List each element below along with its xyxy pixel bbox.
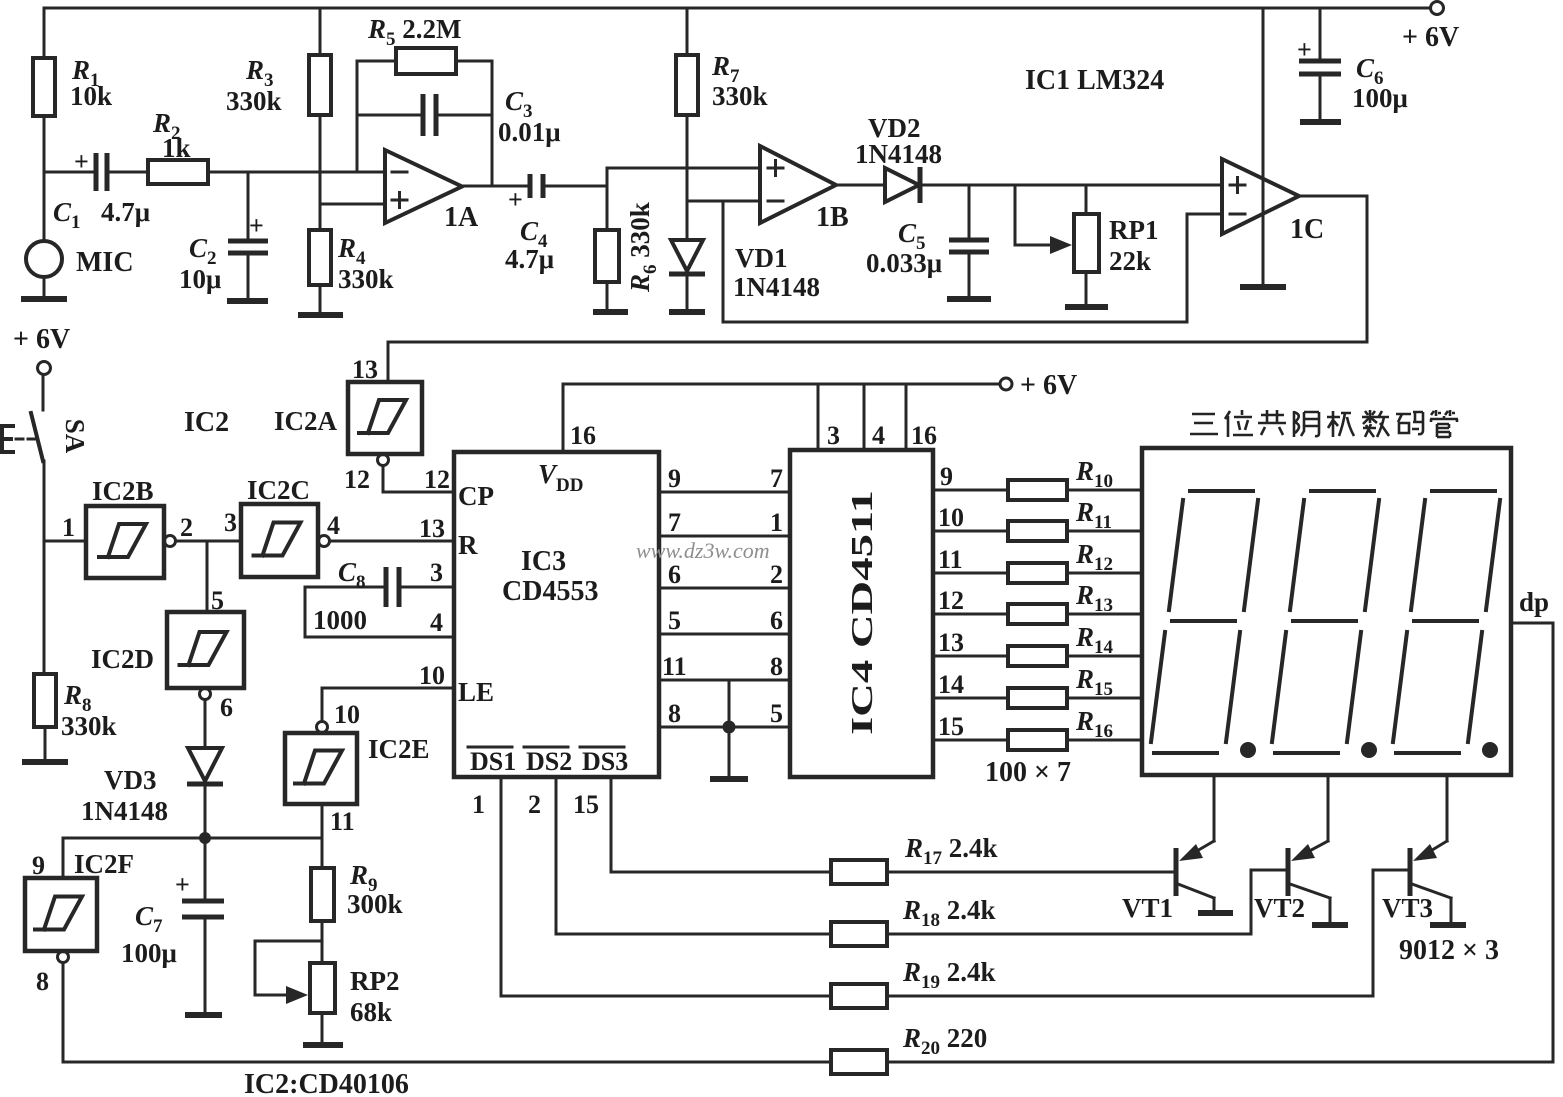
- svg-text:1C: 1C: [1290, 214, 1324, 245]
- ground: [1300, 119, 1341, 125]
- svg-text:6: 6: [668, 560, 681, 589]
- svg-text:3: 3: [224, 508, 237, 537]
- svg-text:13: 13: [419, 514, 445, 543]
- svg-text:RP1: RP1: [1109, 215, 1159, 245]
- svg-text:+: +: [74, 147, 89, 176]
- resistor R14: [933, 655, 1142, 658]
- resistor R7 330k: [686, 8, 689, 240]
- svg-text:330k: 330k: [712, 81, 768, 111]
- svg-text:SA: SA: [60, 419, 90, 454]
- wire IC2F out to R20 rail: [63, 963, 831, 1062]
- schmitt inverter IC2E: [317, 722, 328, 733]
- wire top +6V rail: [44, 7, 1430, 10]
- svg-text:330k: 330k: [338, 264, 394, 294]
- svg-text:4: 4: [872, 421, 885, 450]
- ground: [303, 1042, 343, 1048]
- svg-text:15: 15: [938, 712, 964, 741]
- capacitor C1 4.7u: [44, 171, 148, 174]
- digit 2: [1272, 491, 1379, 753]
- wire IC3-IC4 bus line 7-1: [659, 535, 790, 538]
- svg-text:1B: 1B: [816, 202, 849, 233]
- diode VD3 1N4148: [204, 700, 207, 748]
- svg-text:330k: 330k: [61, 711, 117, 741]
- capacitor C4 4.7u: [462, 185, 607, 188]
- svg-text:7: 7: [668, 508, 681, 537]
- wire IC4 pin4 riser: [863, 384, 866, 450]
- svg-text:dp: dp: [1519, 587, 1549, 617]
- resistor R19 2.4k: [831, 984, 887, 1008]
- svg-text:11: 11: [330, 807, 355, 836]
- ground: [1312, 922, 1348, 928]
- char san: [1190, 414, 1218, 434]
- svg-text:DS1: DS1: [470, 747, 516, 776]
- op-amp U1A: [385, 150, 462, 223]
- svg-text:IC2A: IC2A: [274, 406, 338, 436]
- capacitor C3 0.01u feedback: [357, 114, 492, 117]
- resistor R2 1k: [148, 160, 208, 184]
- svg-text:0.033μ: 0.033μ: [866, 248, 942, 278]
- ground: [710, 776, 748, 782]
- svg-text:10: 10: [938, 503, 964, 532]
- digit 3: [1393, 491, 1500, 753]
- ground: [593, 309, 628, 315]
- svg-text:1N4148: 1N4148: [733, 272, 820, 302]
- resistor R9 300k: [311, 868, 334, 921]
- capacitor C5 0.033u: [968, 185, 971, 299]
- svg-text:IC1 LM324: IC1 LM324: [1025, 65, 1164, 96]
- wire IC2E out down: [321, 804, 324, 868]
- svg-text:+: +: [249, 211, 264, 240]
- transistor VT3: [1446, 775, 1449, 841]
- wire IC3-IC4 bus line 9-7: [659, 491, 790, 494]
- wire IC3 DS1 pin1 to R19: [501, 777, 831, 996]
- diode VD1 1N4148: [671, 240, 703, 271]
- svg-text:12: 12: [424, 465, 450, 494]
- op-amp U1C: [1262, 8, 1265, 287]
- svg-text:4.7μ: 4.7μ: [505, 244, 554, 274]
- svg-text:www.dz3w.com: www.dz3w.com: [636, 538, 770, 563]
- resistor R6 330k: [606, 168, 609, 312]
- svg-text:IC2B: IC2B: [92, 476, 154, 506]
- svg-text:100μ: 100μ: [1352, 83, 1408, 113]
- svg-text:IC2E: IC2E: [368, 734, 430, 764]
- svg-text:16: 16: [570, 421, 596, 450]
- wire dp: [1511, 623, 1553, 1062]
- svg-text:8: 8: [668, 699, 681, 728]
- svg-text:CD4553: CD4553: [502, 576, 598, 607]
- svg-text:11: 11: [662, 652, 687, 681]
- resistor R13: [933, 613, 1142, 616]
- wire 1A noninverting input: [320, 203, 385, 206]
- resistor R20 220: [831, 1050, 887, 1074]
- svg-text:10k: 10k: [70, 81, 112, 111]
- IC IC4 CD4511: [790, 450, 933, 777]
- wire IC2E in from LE: [322, 688, 454, 721]
- resistor R16: [933, 739, 1142, 742]
- svg-text:VD3: VD3: [104, 765, 157, 795]
- svg-text:9: 9: [32, 851, 45, 880]
- wire 1B inverting line: [687, 201, 760, 322]
- svg-text:3: 3: [430, 558, 443, 587]
- resistor R11: [933, 530, 1142, 533]
- char yin: [1294, 411, 1319, 437]
- svg-text:1: 1: [62, 513, 75, 542]
- resistor R3 330k: [319, 8, 322, 230]
- resistor R18 2.4k: [831, 922, 887, 946]
- wire 1C inverting feedback: [723, 214, 1222, 322]
- svg-text:5: 5: [668, 606, 681, 635]
- svg-text:4.7μ: 4.7μ: [101, 197, 150, 227]
- svg-text:4: 4: [327, 511, 340, 540]
- digit 1: [1151, 491, 1258, 753]
- svg-text:100 × 7: 100 × 7: [985, 757, 1071, 788]
- svg-text:R: R: [458, 530, 478, 560]
- svg-text:IC2D: IC2D: [91, 644, 154, 674]
- switch SA: [42, 375, 45, 410]
- svg-text:+: +: [175, 870, 190, 899]
- svg-text:+: +: [508, 185, 523, 214]
- svg-text:IC4 CD4511: IC4 CD4511: [844, 490, 879, 735]
- capacitor C7 100u: [204, 838, 207, 1015]
- svg-text:1: 1: [770, 508, 783, 537]
- resistor R1: [43, 8, 46, 172]
- svg-text:9012 × 3: 9012 × 3: [1399, 935, 1499, 966]
- ground: [1240, 284, 1286, 290]
- svg-text:RP2: RP2: [350, 966, 400, 996]
- svg-text:IC2: IC2: [184, 407, 229, 438]
- svg-text:IC2:CD40106: IC2:CD40106: [244, 1069, 409, 1097]
- ground: [22, 759, 68, 765]
- svg-text:1N4148: 1N4148: [81, 796, 168, 826]
- svg-text:6: 6: [220, 693, 233, 722]
- svg-text:2: 2: [180, 513, 193, 542]
- svg-text:12: 12: [344, 465, 370, 494]
- schmitt inverter IC2D: [206, 541, 209, 612]
- display 3-digit common-cathode: [1190, 410, 1458, 437]
- svg-text:2: 2: [528, 790, 541, 819]
- wire IC2A out to CP: [383, 466, 454, 492]
- node +6V mid terminal: [1000, 378, 1012, 390]
- ground: [185, 1012, 222, 1018]
- transistor VT1: [1213, 775, 1216, 841]
- char ji: [1327, 411, 1354, 437]
- capacitor C6 100u: [1319, 8, 1322, 122]
- svg-text:VD1: VD1: [735, 243, 788, 273]
- svg-text:IC2C: IC2C: [247, 475, 310, 505]
- svg-text:100μ: 100μ: [121, 938, 177, 968]
- wire IC4 pin3 riser: [817, 384, 820, 450]
- capacitor C2 10u: [247, 172, 250, 301]
- ground: [1065, 304, 1108, 310]
- svg-text:1N4148: 1N4148: [855, 139, 942, 169]
- wire IC4 pin16 riser: [905, 384, 908, 450]
- potentiometer RP2 68k: [310, 963, 335, 1013]
- svg-text:10: 10: [419, 661, 445, 690]
- IC IC3 CD4553: [454, 452, 659, 777]
- ground: [21, 296, 67, 302]
- wire IC3 DS3 pin15 to R17: [611, 777, 831, 872]
- svg-text:1000: 1000: [313, 605, 367, 635]
- node +6V supply terminal: [1431, 2, 1444, 15]
- op-amp U1B: [760, 146, 836, 223]
- resistor R4 330k: [309, 230, 331, 285]
- svg-text:8: 8: [770, 652, 783, 681]
- wire IC3-IC4 bus line 6-2: [659, 587, 790, 590]
- svg-text:IC2F: IC2F: [74, 849, 134, 879]
- resistor R10: [933, 489, 1142, 492]
- svg-text:2: 2: [770, 560, 783, 589]
- svg-text:12: 12: [938, 586, 964, 615]
- char shu: [1362, 410, 1389, 437]
- svg-text:MIC: MIC: [76, 247, 134, 278]
- svg-text:300k: 300k: [347, 889, 403, 919]
- ground: [227, 298, 268, 304]
- svg-text:8: 8: [36, 967, 49, 996]
- resistor R5 2.2M feedback: [357, 61, 492, 186]
- svg-text:5: 5: [770, 699, 783, 728]
- svg-text:13: 13: [352, 355, 378, 384]
- svg-text:CP: CP: [458, 481, 494, 511]
- wire IC3-IC4 bus line 8-5: [659, 726, 790, 729]
- svg-text:VT3: VT3: [1382, 893, 1433, 923]
- microphone MIC: [43, 172, 46, 299]
- ground: [947, 296, 991, 302]
- wire IC2B out to IC2C: [176, 540, 241, 543]
- wire 1C output to IC2A: [388, 196, 1367, 382]
- svg-text:14: 14: [938, 670, 964, 699]
- svg-text:6: 6: [770, 606, 783, 635]
- svg-text:DS2: DS2: [526, 747, 572, 776]
- resistor R17 2.4k: [831, 860, 887, 884]
- wire IC3 DS2 pin2 to R18: [556, 777, 831, 934]
- svg-text:11: 11: [938, 545, 963, 574]
- ground: [1198, 910, 1233, 916]
- svg-text:15: 15: [573, 790, 599, 819]
- svg-text:68k: 68k: [350, 997, 392, 1027]
- svg-text:9: 9: [940, 462, 953, 491]
- char ma: [1396, 412, 1423, 434]
- wire IC3-IC4 bus line 11-8: [659, 679, 790, 682]
- svg-text:13: 13: [938, 628, 964, 657]
- ground: [1430, 922, 1466, 928]
- resistor R15: [933, 697, 1142, 700]
- svg-text:10: 10: [334, 700, 360, 729]
- ground: [669, 309, 705, 315]
- svg-text:+ 6V: + 6V: [1020, 370, 1077, 401]
- diode VD2 1N4148: [836, 184, 1222, 187]
- svg-text:VT2: VT2: [1254, 893, 1305, 923]
- svg-text:3: 3: [827, 421, 840, 450]
- svg-text:0.01μ: 0.01μ: [498, 117, 561, 147]
- wire ground of bus lines: [728, 680, 731, 779]
- wire VDD pin16 to +6V rail: [563, 384, 1000, 452]
- svg-text:VT1: VT1: [1122, 893, 1173, 923]
- wire IC3-IC4 bus line 5-6: [659, 633, 790, 636]
- svg-text:9: 9: [668, 464, 681, 493]
- transistor VT2: [1327, 775, 1330, 841]
- resistor R12: [933, 572, 1142, 575]
- wire IC2C out to IC3 R pin: [330, 540, 454, 543]
- svg-text:10μ: 10μ: [179, 264, 221, 294]
- svg-text:330k: 330k: [226, 86, 282, 116]
- node oscillator junction: [199, 832, 211, 844]
- svg-text:22k: 22k: [1109, 246, 1151, 276]
- svg-text:+ 6V: + 6V: [1402, 22, 1459, 53]
- svg-text:+ 6V: + 6V: [13, 324, 70, 355]
- char gong: [1258, 410, 1286, 435]
- svg-text:4: 4: [430, 608, 443, 637]
- wire 1B noninverting line: [607, 167, 760, 170]
- wire SA to R8: [43, 541, 46, 674]
- schmitt inverter IC2B: [44, 540, 86, 543]
- svg-text:7: 7: [770, 464, 783, 493]
- capacitor C8 1000p: [305, 587, 454, 637]
- svg-text:LE: LE: [458, 677, 494, 707]
- char guan: [1430, 410, 1458, 437]
- ground: [298, 312, 343, 318]
- char wei: [1225, 410, 1253, 437]
- svg-text:IC3: IC3: [521, 546, 566, 577]
- potentiometer RP1 22k: [1085, 185, 1088, 307]
- svg-text:1: 1: [472, 790, 485, 819]
- svg-text:1A: 1A: [444, 202, 479, 233]
- svg-text:+: +: [1297, 35, 1312, 64]
- svg-text:16: 16: [911, 421, 937, 450]
- resistor R8 330k: [34, 674, 56, 727]
- svg-text:1k: 1k: [162, 133, 191, 163]
- svg-text:DS3: DS3: [582, 747, 628, 776]
